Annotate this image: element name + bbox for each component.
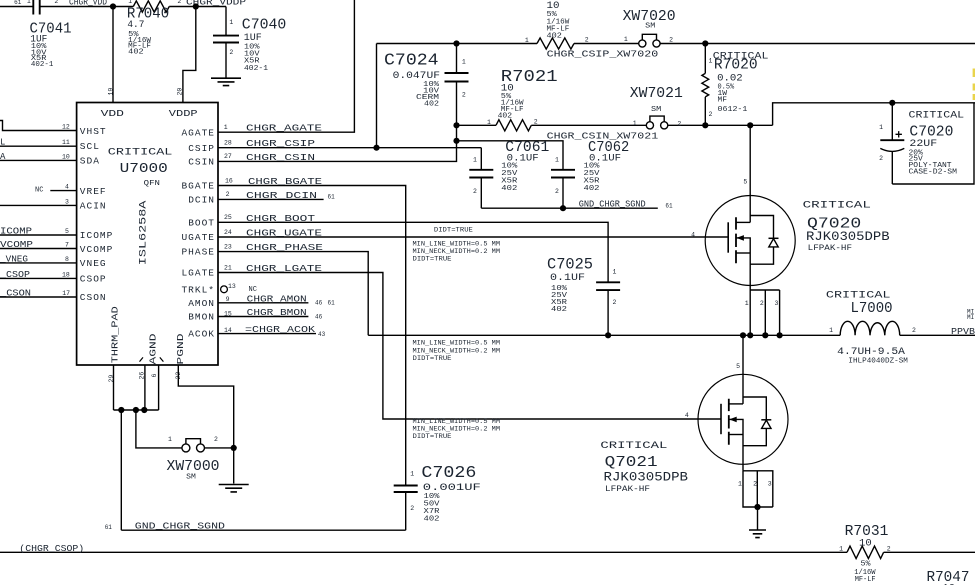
svg-text:2: 2 [410, 505, 414, 512]
svg-text:1: 1 [879, 124, 883, 131]
svg-text:4.7UH-9.5A: 4.7UH-9.5A [837, 346, 905, 358]
svg-text:61: 61 [14, 0, 22, 6]
junction bus to XW7000 [133, 407, 139, 413]
svg-text:5: 5 [736, 363, 740, 370]
svg-text:3: 3 [774, 300, 778, 307]
svg-text:CHGR_UGATE: CHGR_UGATE [246, 229, 322, 239]
wire L7000 to PPVBAT edge [900, 334, 975, 336]
svg-text:25: 25 [224, 214, 232, 221]
svg-text:DIDT=TRUE: DIDT=TRUE [413, 433, 452, 441]
svg-text:VHST: VHST [80, 126, 107, 137]
svg-text:43: 43 [318, 331, 326, 338]
svg-text:13: 13 [228, 283, 236, 290]
svg-text:CRITICAL: CRITICAL [826, 289, 891, 301]
capacitor C7061 [469, 170, 493, 178]
svg-text:11: 11 [62, 139, 70, 146]
junction XW7000 pin2 / PGND [231, 445, 237, 451]
wire CHGR_CSIP to C7061 [218, 147, 481, 149]
svg-text:19: 19 [108, 88, 115, 96]
wire R7040 to C7040 / CHGR_VDDP [169, 6, 226, 8]
ground below Q7021 [749, 530, 766, 538]
svg-text:A: A [0, 152, 6, 162]
svg-text:SM: SM [645, 23, 655, 31]
svg-text:UGATE: UGATE [181, 232, 215, 243]
wire R7020 pin2 [704, 97, 706, 125]
wire sense rail left of R7022 [377, 43, 538, 45]
wire GND_CHGR_SGND net line [121, 529, 405, 531]
wire CSOP pin 18 [0, 277, 77, 279]
svg-text:2: 2 [226, 191, 230, 198]
wire C7020 return loop to edge [892, 103, 974, 184]
svg-text:C7024: C7024 [384, 51, 439, 70]
svg-text:5%: 5% [861, 560, 872, 568]
svg-text:SM: SM [186, 474, 196, 482]
Q7021 pins 1,2,3 box [743, 471, 773, 507]
junction C7024 top [453, 40, 459, 46]
svg-text:1: 1 [613, 269, 617, 276]
no-connect bubble pin 13 TRKL* [221, 286, 228, 293]
svg-text:QFN: QFN [144, 180, 160, 188]
svg-text:10: 10 [62, 153, 70, 160]
wire CHGR_AMON stub [218, 302, 308, 304]
junction CSIN / R7021 / C7024 [453, 122, 459, 128]
svg-text:L7000: L7000 [851, 301, 893, 317]
svg-text:CSIP: CSIP [188, 143, 215, 154]
svg-text:1: 1 [525, 37, 529, 44]
wire bus to XW7000 pin 1 [136, 410, 182, 448]
svg-text:CHGR_LGATE: CHGR_LGATE [246, 264, 322, 274]
svg-text:402-1: 402-1 [244, 65, 269, 73]
wire CHGR_LGATE to Q7021 gate [218, 273, 721, 420]
svg-text:3: 3 [65, 198, 69, 205]
svg-text:15: 15 [224, 311, 232, 318]
wire GND_CHGR_SGND (filter) line [481, 207, 658, 209]
svg-text:C7026: C7026 [421, 463, 476, 482]
transistor Q7020 (N-MOSFET) [705, 196, 795, 286]
junction Q7020 pin2 [762, 332, 768, 338]
svg-text:GND_CHGR_SGND: GND_CHGR_SGND [579, 199, 646, 209]
wire pin 26 AGND [144, 365, 146, 410]
resistor R7031 body [847, 546, 884, 558]
svg-text:402-1: 402-1 [31, 61, 54, 69]
svg-text:402: 402 [551, 306, 567, 314]
wire Q7020 drain vertical [749, 125, 751, 222]
wire VREF stub pin 4 [50, 190, 76, 192]
svg-text:1: 1 [168, 436, 172, 443]
svg-text:C7040: C7040 [242, 18, 286, 34]
junction VDDP riser [193, 3, 199, 9]
svg-text:1: 1 [487, 119, 491, 126]
junction bus to SGND [118, 407, 124, 413]
wire C7020 pin2 [891, 152, 893, 184]
svg-text:2: 2 [214, 436, 218, 443]
wire CHGR_AGATE with riser to top edge [218, 0, 354, 132]
wire VDD riser to pin 19 [112, 7, 114, 103]
svg-text:CHGR_AMON: CHGR_AMON [247, 294, 307, 304]
svg-text:27: 27 [224, 153, 232, 160]
wire CHGR_UGATE to Q7020 gate [218, 236, 728, 238]
wire XW7021 to jog [668, 124, 773, 126]
svg-text:BGATE: BGATE [181, 181, 215, 192]
svg-text:CHGR_PHASE: CHGR_PHASE [246, 243, 323, 253]
junction C7020 [889, 100, 895, 106]
transistor Q7021 (N-MOSFET) [698, 374, 788, 464]
wire C7040 pin2 to ground [225, 43, 227, 78]
svg-text:1: 1 [473, 157, 477, 164]
wire CHGR_CSIN with riser [218, 125, 457, 161]
wire SGND drop [120, 410, 122, 530]
svg-text:ACIN: ACIN [80, 201, 107, 212]
svg-text:GND_CHGR_SGND: GND_CHGR_SGND [135, 522, 225, 532]
svg-text:PHASE: PHASE [181, 247, 215, 258]
wire C7061 pin2 [480, 178, 482, 209]
junction R7020 pin2 [702, 122, 708, 128]
wire ground bus under IC [114, 409, 159, 411]
svg-text:4: 4 [65, 184, 69, 191]
wire CHGR_PHASE with riser to phase rail [218, 252, 368, 336]
svg-text:2: 2 [760, 300, 764, 307]
svg-text:61: 61 [328, 300, 336, 307]
svg-text:1: 1 [410, 470, 414, 477]
svg-text:DIDT=TRUE: DIDT=TRUE [413, 355, 452, 363]
svg-text:RJK0305DPB: RJK0305DPB [604, 471, 689, 485]
junction Q7020 source pin1 [747, 332, 753, 338]
svg-text:BOOT: BOOT [188, 217, 215, 228]
svg-text:MIN_LINE_WIDTH=0.5 MM: MIN_LINE_WIDTH=0.5 MM [413, 418, 501, 426]
wire CHGR_DCIN stub [218, 198, 324, 200]
wire R7020 pin1 [704, 44, 706, 74]
wire phase rail [368, 334, 840, 336]
capacitor C7040 [213, 36, 239, 43]
wire VCOMP pin 7 [0, 248, 77, 250]
junction Q7021 drain [740, 332, 746, 338]
svg-text:61: 61 [105, 524, 113, 531]
wire CHGR_ACOK stub [218, 333, 316, 335]
svg-text:ACOK: ACOK [188, 329, 215, 340]
svg-text:18: 18 [62, 271, 70, 278]
Q7020 pins 2,3 box [750, 290, 779, 335]
svg-text:MF-LF: MF-LF [855, 576, 876, 584]
svg-text:NC: NC [249, 286, 257, 294]
junction Q7021 source to ground [754, 504, 760, 510]
svg-text:2: 2 [177, 0, 181, 5]
wire CHGR_CSOP rail left [0, 551, 847, 553]
svg-text:29: 29 [108, 375, 115, 383]
svg-text:MF: MF [718, 97, 728, 105]
svg-text:2: 2 [473, 188, 477, 195]
ground below XW7000 [219, 485, 249, 492]
svg-text:CSOP: CSOP [80, 274, 107, 285]
svg-text:1: 1 [462, 59, 466, 66]
wire VHST pin 12 [0, 121, 77, 131]
junction R7020 pin1 [702, 40, 708, 46]
jumper XW7000 [182, 439, 205, 452]
svg-text:9: 9 [226, 296, 230, 303]
svg-text:(CHGR_CSOP): (CHGR_CSOP) [19, 544, 84, 554]
resistor R7040 body [133, 1, 169, 12]
svg-text:12: 12 [62, 124, 70, 131]
svg-text:1: 1 [27, 0, 31, 5]
svg-text:NC: NC [35, 187, 43, 195]
svg-text:20: 20 [177, 88, 184, 96]
svg-text:AMON: AMON [188, 298, 215, 309]
svg-text:2: 2 [887, 546, 891, 553]
wire C7024 pin2 to CSIN node [456, 82, 458, 126]
svg-text:AGATE: AGATE [181, 127, 215, 138]
wire jog up to C7020 rail [773, 103, 975, 126]
wire CSIN node to R7021 [457, 124, 497, 126]
svg-text:L: L [0, 138, 5, 148]
svg-text:VDD: VDD [101, 108, 125, 119]
wire CHGR_BGATE to C7026 [218, 186, 406, 486]
capacitor C7020 (polarized) [880, 139, 904, 141]
svg-text:2: 2 [229, 49, 233, 56]
svg-text:SCL: SCL [80, 141, 100, 152]
svg-text:CRITICAL: CRITICAL [600, 440, 667, 452]
svg-text:PGND: PGND [175, 333, 186, 364]
svg-text:CSON: CSON [80, 292, 107, 303]
svg-text:_CSON: _CSON [0, 289, 31, 299]
capacitor C7024 [445, 73, 469, 82]
junction VDD riser [110, 3, 116, 9]
svg-text:2: 2 [534, 119, 538, 126]
svg-text:46: 46 [315, 300, 323, 307]
svg-text:CHGR_CSIN: CHGR_CSIN [246, 153, 315, 163]
svg-text:LFPAK-HF: LFPAK-HF [808, 243, 852, 253]
svg-text:2: 2 [462, 92, 466, 99]
svg-text:CSIN: CSIN [188, 157, 215, 168]
svg-text:4: 4 [685, 412, 689, 419]
wire ICOMP pin 5 [0, 234, 77, 236]
svg-text:2: 2 [879, 155, 883, 162]
svg-text:CHGR_BMON: CHGR_BMON [247, 308, 307, 318]
svg-text:MIN_LINE_WIDTH=0.5 MM: MIN_LINE_WIDTH=0.5 MM [413, 240, 501, 248]
junction bus pin 26 [141, 407, 147, 413]
wire C7025 pin2 to phase rail [607, 290, 609, 335]
wire XW7020 to R7020 and right edge [660, 43, 975, 45]
wire C7061 pin1 [480, 148, 482, 170]
resistor R7022 body (name cut off) [537, 38, 574, 49]
junction CSIP riser [373, 145, 379, 151]
wire CSIN to C7062 pin1 [457, 141, 564, 170]
svg-text:1: 1 [738, 481, 742, 488]
svg-text:24: 24 [224, 229, 232, 236]
svg-text:5: 5 [65, 228, 69, 235]
svg-text:16: 16 [225, 177, 233, 184]
wire Q7020 source vertical [749, 253, 751, 335]
svg-text:CHGR_VDD: CHGR_VDD [69, 0, 107, 8]
wire to ground [233, 448, 235, 484]
svg-text:ISL6258A: ISL6258A [138, 200, 150, 265]
svg-text:2: 2 [555, 188, 559, 195]
svg-text:2: 2 [753, 481, 757, 488]
svg-text:TRKL*: TRKL* [181, 284, 215, 295]
svg-text:10: 10 [859, 537, 872, 549]
jumper XW7020 [639, 34, 660, 47]
highlight marks right edge [973, 69, 975, 78]
wire ACIN pin 3 [0, 204, 77, 206]
svg-text:2: 2 [54, 0, 58, 5]
resistor R7020 body [702, 73, 709, 97]
svg-text:=CHGR_ACOK: =CHGR_ACOK [245, 325, 316, 335]
wire C7026 pin2 to SGND line [405, 492, 407, 530]
svg-text:THRM_PAD: THRM_PAD [110, 306, 121, 363]
svg-text:DCIN: DCIN [188, 195, 215, 206]
svg-text:1UF: 1UF [244, 32, 262, 44]
svg-text:2: 2 [613, 299, 617, 306]
svg-text:_CSOP: _CSOP [0, 270, 30, 280]
svg-text:1: 1 [745, 300, 749, 307]
wire C7020 pin1 [891, 103, 893, 140]
svg-text:0.1UF: 0.1UF [550, 272, 585, 284]
wire C7024 pin1 [456, 44, 458, 74]
junction Q7020 pin3 [777, 332, 783, 338]
svg-text:R7020: R7020 [714, 58, 758, 74]
wire CHGR_BOOT to C7025 [218, 222, 608, 282]
wire CHGR_VDD left segment [0, 6, 33, 8]
svg-text:CHGR_CSIP_XW7020: CHGR_CSIP_XW7020 [547, 49, 659, 59]
svg-text:SDA: SDA [80, 155, 100, 166]
wire VDDP riser to pin 20 [183, 7, 196, 103]
svg-text:ICOMP: ICOMP [0, 227, 32, 237]
junction C7062 pin2 [560, 205, 566, 211]
svg-text:402: 402 [128, 49, 143, 57]
svg-text:402: 402 [547, 33, 562, 41]
svg-text:CHGR_AGATE: CHGR_AGATE [246, 124, 322, 134]
svg-text:7: 7 [65, 242, 69, 249]
svg-text:1: 1 [128, 0, 132, 5]
svg-text:1: 1 [633, 120, 637, 127]
wire CHGR_CSOP rail right [884, 551, 975, 553]
svg-text:DIDT=TRUE: DIDT=TRUE [434, 226, 473, 234]
svg-text:402: 402 [498, 113, 512, 121]
wire Q7021 drain vertical [742, 335, 744, 404]
junction C7025 pin2 [605, 332, 611, 338]
svg-text:VDDP: VDDP [169, 108, 198, 119]
svg-text:VCOMP: VCOMP [0, 240, 33, 250]
resistor R7021 body [496, 120, 531, 131]
svg-text:17: 17 [62, 290, 70, 297]
svg-text:402: 402 [424, 515, 440, 523]
svg-text:1: 1 [829, 327, 833, 334]
wire C7062 pin2 [562, 178, 564, 209]
svg-text:C7025: C7025 [547, 256, 593, 274]
svg-text:61: 61 [328, 194, 336, 201]
svg-text:21: 21 [224, 264, 232, 271]
svg-text:PPVB: PPVB [951, 327, 975, 337]
svg-text:6: 6 [151, 374, 158, 378]
svg-text:23: 23 [224, 243, 232, 250]
svg-text:1: 1 [555, 157, 559, 164]
inductor L7000 [840, 321, 900, 335]
wire pin 22 PGND to XW7000 pin2 node [178, 365, 233, 448]
svg-text:2: 2 [677, 120, 681, 127]
svg-text:1: 1 [229, 19, 233, 26]
svg-text:CRITICAL: CRITICAL [108, 147, 173, 159]
wire VNEG pin 8 [0, 262, 77, 264]
wire CHGR_SDA to pin 10 [0, 159, 77, 161]
svg-text:5: 5 [743, 179, 747, 186]
svg-text:SM: SM [651, 106, 661, 114]
svg-text:3: 3 [768, 481, 772, 488]
svg-text:1: 1 [839, 546, 843, 553]
svg-text:U7000: U7000 [120, 162, 168, 177]
svg-text:2: 2 [585, 37, 589, 44]
ground below C7040 [211, 78, 241, 85]
svg-text:_VNEG: _VNEG [0, 254, 28, 264]
AGND tick marks [140, 357, 164, 361]
wire C7040 pin1 [225, 7, 227, 36]
capacitor C7026 [394, 486, 418, 493]
svg-text:XW7021: XW7021 [630, 86, 683, 102]
wire XW7000 pin2 [205, 447, 234, 449]
wire pin 6 AGND [158, 365, 160, 410]
op-amp/controller IC U7000 body [77, 103, 218, 366]
svg-text:LGATE: LGATE [181, 268, 215, 279]
svg-text:RJK0305DPB: RJK0305DPB [806, 230, 890, 244]
svg-text:61: 61 [665, 203, 673, 210]
svg-text:MI: MI [967, 314, 974, 321]
svg-text:ICOMP: ICOMP [80, 230, 114, 241]
svg-text:1: 1 [624, 36, 628, 43]
svg-text:MIN_LINE_WIDTH=0.5 MM: MIN_LINE_WIDTH=0.5 MM [413, 340, 501, 348]
wire R7022 to XW7020 [574, 43, 639, 45]
wire CHGR_SCL to pin 11 [0, 145, 77, 147]
wire Q7021 source to ground [757, 507, 759, 530]
wire R7021 to XW7021 [531, 124, 646, 126]
capacitor C7041 (series, vertical plates) [33, 0, 39, 15]
svg-text:LFPAK-HF: LFPAK-HF [605, 484, 650, 494]
capacitor C7062 [551, 170, 575, 178]
svg-text:CHGR_BOOT: CHGR_BOOT [246, 214, 316, 224]
svg-text:VNEG: VNEG [80, 258, 107, 269]
svg-text:AGND: AGND [147, 333, 158, 364]
wire Q7021 source vertical [742, 435, 744, 471]
svg-text:CASE-D2-SM: CASE-D2-SM [909, 168, 958, 176]
svg-text:CHGR_DCIN: CHGR_DCIN [246, 191, 317, 201]
capacitor C7025 [596, 282, 620, 290]
svg-text:IHLP4040DZ-SM: IHLP4040DZ-SM [848, 358, 908, 366]
wire CSIP riser to sense rail [376, 44, 378, 148]
svg-text:2: 2 [709, 111, 713, 118]
svg-text:46: 46 [315, 314, 323, 321]
svg-text:CRITICAL: CRITICAL [803, 200, 871, 212]
svg-text:4: 4 [691, 232, 695, 239]
svg-text:VCOMP: VCOMP [80, 244, 114, 255]
svg-text:26: 26 [139, 372, 146, 380]
svg-text:0612-1: 0612-1 [718, 106, 748, 114]
svg-text:8: 8 [65, 256, 69, 263]
svg-text:CRITICAL: CRITICAL [909, 110, 965, 121]
svg-text:2: 2 [669, 37, 673, 44]
plus sign C7020 [896, 131, 902, 137]
junction Q7020 drain [747, 122, 753, 128]
svg-text:CHGR_BGATE: CHGR_BGATE [248, 177, 322, 187]
jumper XW7021 [646, 116, 668, 129]
wire CSON pin 17 [0, 296, 77, 298]
svg-text:VREF: VREF [80, 186, 107, 197]
wire CHGR_BMON stub [218, 316, 308, 318]
svg-text:28: 28 [224, 140, 232, 147]
svg-text:Q7021: Q7021 [605, 455, 658, 471]
svg-text:CHGR_CSIP: CHGR_CSIP [246, 139, 315, 149]
junction CSIN to C7062 [453, 138, 459, 144]
svg-text:1: 1 [224, 124, 228, 131]
svg-text:4.7: 4.7 [127, 19, 144, 31]
svg-text:402: 402 [584, 185, 600, 193]
svg-text:402: 402 [501, 185, 517, 193]
svg-text:2: 2 [912, 327, 916, 334]
